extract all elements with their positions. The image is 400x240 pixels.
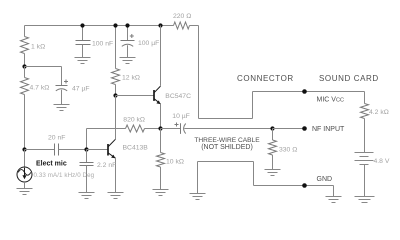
wire feedback vertical xyxy=(86,129,88,150)
svg-text:0.33 mA/1 kHz/0 Deg: 0.33 mA/1 kHz/0 Deg xyxy=(34,172,95,179)
svg-text:SOUND CARD: SOUND CARD xyxy=(319,74,379,83)
capacitor 20 nF xyxy=(25,134,87,155)
wire 220 Ω to corner xyxy=(190,25,199,27)
source Elect mic xyxy=(17,150,95,189)
svg-text:10 µF: 10 µF xyxy=(172,113,190,120)
node GND terminal xyxy=(302,183,307,188)
ground Elect mic xyxy=(17,189,33,195)
transistor BC547C xyxy=(154,26,191,129)
svg-text:NF INPUT: NF INPUT xyxy=(312,126,345,133)
svg-text:4.2 kΩ: 4.2 kΩ xyxy=(369,109,389,116)
node MIC Vcc terminal xyxy=(302,89,307,94)
svg-text:20 nF: 20 nF xyxy=(48,134,65,141)
node 100 nF rail xyxy=(80,23,84,27)
ground emitter BC413B xyxy=(108,193,124,199)
battery 4.8 V xyxy=(355,153,390,197)
svg-text:820 kΩ: 820 kΩ xyxy=(123,117,145,124)
wire GND drop xyxy=(333,186,335,197)
node 330 Ω xyxy=(270,126,274,130)
ground 10 kΩ xyxy=(153,190,169,196)
svg-text:100 µF: 100 µF xyxy=(138,40,159,47)
capacitor 2.2 nF xyxy=(80,150,117,193)
resistor 12 kΩ xyxy=(112,26,140,96)
capacitor 10 µF xyxy=(161,113,273,134)
node 12 kΩ rail xyxy=(113,23,117,27)
wire node to 47 µF xyxy=(25,66,62,68)
svg-text:330 Ω: 330 Ω xyxy=(279,147,297,154)
node base BC413B xyxy=(84,147,88,151)
ground cable xyxy=(190,194,206,200)
svg-text:MIC VCC: MIC VCC xyxy=(317,97,345,104)
svg-text:47 µF: 47 µF xyxy=(72,86,90,93)
svg-text:Elect mic: Elect mic xyxy=(36,161,67,168)
resistor 4.2 kΩ xyxy=(361,92,389,153)
svg-text:GND: GND xyxy=(317,176,333,183)
svg-text:1 kΩ: 1 kΩ xyxy=(31,44,45,51)
resistor 330 Ω xyxy=(269,129,298,170)
wire connector Vcc riser xyxy=(252,92,254,119)
capacitor 100 nF xyxy=(76,26,114,58)
wire cable ground horizontal xyxy=(198,161,254,163)
wire base BC413B xyxy=(87,149,108,151)
svg-text:BC547C: BC547C xyxy=(165,93,191,100)
wire connector Vcc vertical xyxy=(198,26,200,119)
svg-text:12 kΩ: 12 kΩ xyxy=(122,74,140,81)
wire top rail xyxy=(25,25,174,27)
wire feedback horizontal xyxy=(87,128,126,130)
ground battery xyxy=(355,197,375,203)
resistor 820 kΩ xyxy=(123,117,145,133)
node base BC547C xyxy=(113,93,117,97)
ground 330 Ω xyxy=(265,170,281,176)
node 100 µF rail xyxy=(125,23,129,27)
svg-text:THREE-WIRE CABLE: THREE-WIRE CABLE xyxy=(194,137,260,144)
node left divider xyxy=(22,64,26,68)
wire NF line xyxy=(273,128,305,130)
resistor 220 Ω xyxy=(173,13,191,29)
wire 820 kΩ to node xyxy=(145,128,161,130)
capacitor 47 µF xyxy=(56,67,90,105)
wire cable ground vertical xyxy=(197,162,199,194)
svg-text:CONNECTOR: CONNECTOR xyxy=(237,74,294,83)
wire GND line xyxy=(254,185,334,187)
svg-text:4.8 V: 4.8 V xyxy=(374,158,390,165)
svg-text:220 Ω: 220 Ω xyxy=(173,13,191,20)
node emitter output xyxy=(158,126,162,130)
svg-text:BC413B: BC413B xyxy=(123,144,149,151)
wire cable ground drop xyxy=(253,162,255,186)
capacitor 100 µF xyxy=(121,26,160,58)
wire base BC547C xyxy=(116,95,155,97)
ground 100 µF xyxy=(120,58,136,64)
wire connector Vcc horizontal lower xyxy=(199,118,253,120)
node mic input xyxy=(22,147,26,151)
svg-text:4.7 kΩ: 4.7 kΩ xyxy=(30,85,50,92)
ground GND xyxy=(326,197,342,203)
svg-text:10 kΩ: 10 kΩ xyxy=(166,159,184,166)
resistor 1 kΩ xyxy=(21,26,46,67)
svg-text:(NOT SHILDED): (NOT SHILDED) xyxy=(201,144,253,151)
resistor 4.7 kΩ xyxy=(21,67,50,150)
ground 100 nF xyxy=(75,58,91,64)
ground 47 µF xyxy=(54,105,70,111)
wire MIC Vcc line xyxy=(253,91,365,93)
node NF INPUT terminal xyxy=(302,126,307,131)
resistor 10 kΩ xyxy=(157,129,184,190)
node BC547C rail xyxy=(158,23,162,27)
svg-text:2.2 nF: 2.2 nF xyxy=(97,162,116,169)
transistor BC413B xyxy=(108,96,148,193)
ground 2.2 nF xyxy=(79,193,95,199)
svg-text:100 nF: 100 nF xyxy=(92,40,113,47)
